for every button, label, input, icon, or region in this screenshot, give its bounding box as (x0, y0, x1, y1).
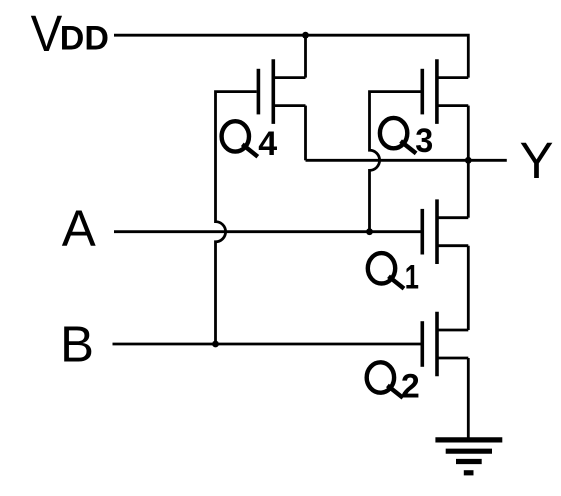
svg-text:V: V (31, 5, 63, 62)
transistor Q1 (422, 199, 468, 264)
junction dot node Y (465, 157, 472, 164)
label Q4 (222, 121, 278, 163)
wire Q4 source to VDD rail (304, 37, 307, 78)
wire Q3 gate down to node A (hops over Y line) (370, 92, 421, 232)
junction dot node A (366, 228, 373, 235)
svg-text:3: 3 (415, 122, 433, 160)
wire Q2 source to ground (467, 358, 470, 440)
wire output Y line (306, 159, 507, 162)
wire input B line (113, 343, 421, 346)
svg-text:1: 1 (405, 259, 419, 296)
junction dot on VDD rail (302, 32, 309, 39)
svg-text:4: 4 (258, 125, 277, 163)
wire input A line (114, 230, 421, 233)
transistor Q4 (258, 59, 305, 124)
svg-text:DD: DD (60, 20, 109, 58)
svg-text:B: B (60, 316, 94, 373)
transistor Q2 (422, 312, 468, 377)
label Q1 (368, 253, 419, 297)
wire Q3 drain to Y junction (467, 106, 470, 161)
transistor Q3 (422, 59, 468, 124)
wire VDD rail (114, 35, 468, 77)
label VDD (31, 5, 109, 62)
wire Q4 gate down to node B (hops over A line) (216, 92, 257, 344)
ground (435, 440, 502, 473)
junction dot node B (212, 341, 219, 348)
wire Y junction to Q1 drain (467, 160, 470, 217)
wire Q4 drain down to Y line (304, 106, 307, 161)
label Q2 (367, 362, 420, 405)
wire Q1 source to Q2 drain (467, 246, 470, 330)
svg-text:Y: Y (520, 132, 554, 189)
label Q3 (380, 118, 433, 160)
svg-text:2: 2 (401, 368, 420, 406)
svg-text:A: A (62, 200, 96, 257)
